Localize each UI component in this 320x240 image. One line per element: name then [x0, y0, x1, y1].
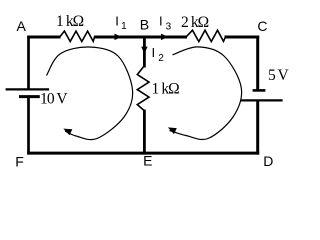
svg-text:B: B [140, 17, 149, 33]
svg-text:5 V: 5 V [268, 67, 290, 84]
svg-text:C: C [257, 18, 267, 34]
svg-text:A: A [17, 18, 27, 34]
svg-text:D: D [263, 153, 273, 169]
svg-text:2: 2 [158, 53, 164, 64]
svg-text:10 V: 10 V [40, 91, 68, 108]
svg-text:3: 3 [166, 22, 172, 33]
svg-text:I: I [152, 45, 156, 60]
svg-text:E: E [143, 153, 152, 169]
svg-text:I: I [159, 14, 163, 29]
svg-text:1: 1 [121, 21, 127, 32]
svg-text:1 kΩ: 1 kΩ [56, 13, 84, 30]
svg-text:I: I [115, 13, 119, 28]
svg-text:F: F [15, 154, 24, 170]
svg-text:2 kΩ: 2 kΩ [181, 14, 209, 31]
svg-text:1 kΩ: 1 kΩ [152, 81, 180, 98]
